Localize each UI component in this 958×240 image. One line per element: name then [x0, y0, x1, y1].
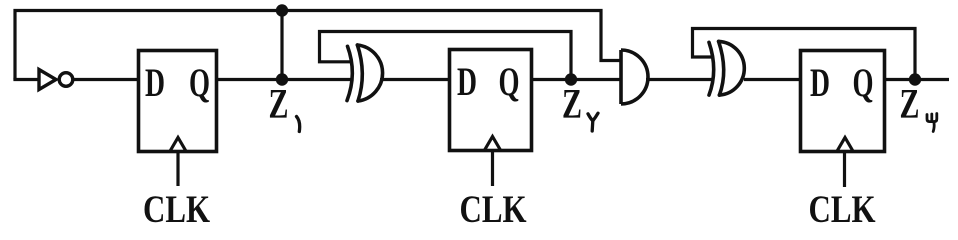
- clock wedge U2: [484, 137, 501, 152]
- svg-text:D: D: [810, 60, 830, 105]
- node Z1 junction dot: [276, 73, 288, 85]
- wire FF3 Q to output: [884, 78, 949, 81]
- wire feedback Z2 to XOR1 top input: [320, 32, 572, 80]
- label subscript 2 (Arabic) of Z2: [588, 113, 598, 131]
- flip-flop U3: [801, 51, 885, 152]
- svg-text:Q: Q: [853, 60, 874, 105]
- xor gate X1: [347, 45, 383, 101]
- wire inverter input: [13, 78, 39, 81]
- flip-flop U2: [450, 50, 532, 151]
- svg-text:D: D: [457, 59, 477, 104]
- label subscript 1 (Arabic) of Z1: [297, 117, 300, 132]
- svg-text:Q: Q: [499, 59, 520, 104]
- xor gate X2: [709, 41, 744, 95]
- svg-text:D: D: [145, 60, 165, 105]
- wire feedback Z3 to XOR2 top input: [693, 29, 916, 80]
- wire XOR1 output to FF2 D: [380, 78, 450, 81]
- flip-flop U1: [139, 51, 217, 152]
- wire inverter output to FF1 D: [73, 78, 139, 81]
- wire AND output to XOR2 input: [646, 78, 713, 81]
- svg-text:Z: Z: [900, 82, 920, 128]
- wire riser node Z1 to top rail: [280, 11, 283, 80]
- svg-text:CLK: CLK: [809, 188, 877, 231]
- svg-text:CLK: CLK: [460, 188, 528, 231]
- svg-text:CLK: CLK: [143, 188, 211, 231]
- wire FF2 Q to AND input: [531, 78, 622, 81]
- node junction dot on top rail: [276, 4, 288, 16]
- label subscript 3 (Arabic) of Z3: [927, 114, 937, 132]
- clock wedge U1: [170, 138, 187, 153]
- wire top feedback net Z1 (left rail, top run, drop to AND): [15, 11, 621, 80]
- and gate A1: [621, 50, 648, 104]
- wire CLK stem FF2: [491, 152, 494, 186]
- inverter (NOT gate): [39, 70, 73, 90]
- node Z3 junction dot: [909, 73, 921, 85]
- svg-text:Z: Z: [269, 82, 289, 128]
- clock wedge U3: [837, 138, 854, 153]
- svg-text:Z: Z: [562, 82, 582, 128]
- svg-text:Q: Q: [189, 60, 210, 105]
- wire CLK stem FF3: [843, 153, 846, 187]
- wire XOR2 output to FF3 D: [744, 78, 801, 81]
- wire CLK stem FF1: [176, 153, 179, 186]
- node Z2 junction dot: [565, 73, 577, 85]
- wire FF1 Q to XOR1 input: [217, 78, 351, 81]
